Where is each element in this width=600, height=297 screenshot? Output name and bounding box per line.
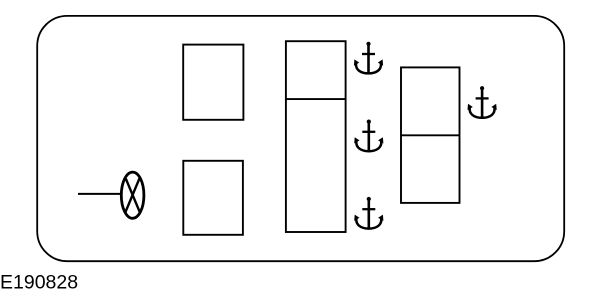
seat rectangle front passenger (top-left) (183, 45, 243, 120)
anchor symbol 3 (bottom middle) (354, 197, 383, 229)
steering wheel cross line 1 (126, 179, 140, 213)
seat rectangle driver (bottom-left) (183, 161, 243, 235)
third row seat divider line (401, 134, 460, 136)
anchor symbol 4 (right) (468, 86, 497, 118)
second row seat divider line (286, 98, 346, 100)
vehicle outline (rounded rectangle) (37, 16, 564, 261)
third row seat rectangle (right column) (401, 67, 460, 203)
anchor symbol 2 (middle) (354, 120, 383, 152)
steering wheel cross line 2 (125, 179, 139, 213)
svg-text:E190828: E190828 (0, 272, 78, 293)
second row seat rectangle (middle column) (286, 41, 346, 232)
steering column line (78, 193, 122, 195)
anchor symbol 1 (top middle) (354, 42, 383, 74)
steering wheel ellipse (121, 172, 144, 218)
